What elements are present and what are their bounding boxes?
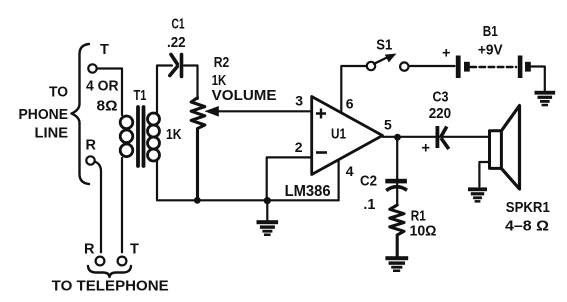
svg-text:6: 6: [346, 96, 354, 112]
svg-text:10Ω: 10Ω: [410, 224, 437, 240]
svg-text:4 OR: 4 OR: [86, 79, 119, 95]
svg-text:3: 3: [295, 93, 303, 109]
svg-text:T1: T1: [134, 88, 147, 104]
svg-text:.22: .22: [167, 35, 186, 51]
svg-text:VOLUME: VOLUME: [212, 88, 277, 104]
svg-text:.1: .1: [363, 197, 375, 213]
svg-text:1K: 1K: [166, 127, 182, 143]
svg-text:B1: B1: [483, 24, 498, 40]
svg-text:S1: S1: [376, 38, 392, 54]
svg-text:4–8 Ω: 4–8 Ω: [505, 219, 549, 235]
svg-text:8Ω: 8Ω: [97, 99, 118, 115]
svg-text:+9V: +9V: [478, 43, 503, 59]
svg-text:PHONE: PHONE: [19, 107, 69, 123]
svg-text:220: 220: [429, 106, 451, 122]
svg-text:R2: R2: [214, 55, 230, 71]
svg-text:5: 5: [384, 117, 392, 133]
svg-text:C2: C2: [360, 174, 377, 190]
svg-text:2: 2: [295, 139, 303, 155]
svg-text:C1: C1: [172, 17, 185, 33]
svg-text:+: +: [422, 141, 430, 157]
svg-text:T: T: [100, 42, 109, 58]
svg-text:TO TELEPHONE: TO TELEPHONE: [52, 279, 169, 295]
svg-text:1K: 1K: [212, 73, 227, 89]
svg-text:LM386: LM386: [285, 183, 331, 200]
svg-text:4: 4: [346, 163, 354, 179]
svg-text:R: R: [84, 242, 95, 258]
svg-text:SPKR1: SPKR1: [506, 200, 550, 216]
svg-text:TO: TO: [49, 85, 68, 101]
svg-text:T: T: [130, 242, 139, 258]
svg-text:R: R: [86, 138, 97, 154]
svg-text:+: +: [442, 46, 450, 62]
svg-text:U1: U1: [331, 127, 346, 143]
svg-text:R1: R1: [411, 209, 426, 225]
svg-text:C3: C3: [433, 90, 449, 106]
svg-text:LINE: LINE: [35, 126, 69, 142]
